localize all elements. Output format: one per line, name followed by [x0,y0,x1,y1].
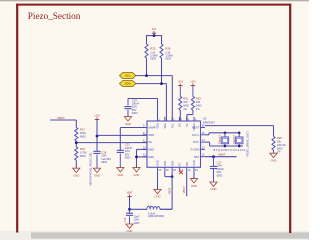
ground R29 [73,168,80,177]
piezo LS2 [232,135,243,144]
power port R33 top [190,82,196,86]
wire divider node [76,141,147,147]
wire piezo1 stubs [224,133,226,146]
wire power to C18 [96,120,98,151]
svg-text:DRV2667: DRV2667 [203,120,216,124]
bottom scrollbar track [0,231,309,240]
svg-text:+3V3: +3V3 [178,82,184,84]
capacitor C15 [123,213,140,225]
junction pin GND [135,156,138,159]
label U3 [203,117,207,121]
junction VDD pins [171,175,174,178]
net label VBAT vertical [168,187,172,194]
ground C17 [210,182,217,191]
junction piezo2 bottom [238,145,241,148]
sheet border right [289,4,291,233]
svg-text:Piezo2: Piezo2 [232,135,236,144]
piezo LS1 [218,135,229,144]
svg-text:Piezo1: Piezo1 [218,135,222,144]
capacitor C17 [210,157,224,182]
wire R28 bottom [273,150,275,153]
wire R25 bottom [146,58,148,76]
wire VDD pins to VBAT [165,172,172,177]
wire R31 top [179,86,181,97]
label DRV2667 [203,120,216,124]
wire piezo2 stubs [238,133,240,146]
svg-text:R26: R26 [165,46,171,50]
no-ERC cross on NC pin [179,171,183,175]
ground pin 20 [154,189,161,198]
wire VBAT left [50,120,76,127]
ground C21 [117,168,124,177]
svg-text:VBAT: VBAT [218,153,225,157]
ground R28 [270,153,277,162]
junction VDD rail [153,34,156,37]
svg-text:SDA: SDA [125,82,131,86]
wire SCL [136,76,173,121]
port SCL [120,73,136,79]
junction C18 node [96,135,99,138]
port SDA [120,81,136,87]
junction L1 C15 [128,208,131,211]
ground C18 [93,168,100,177]
power port VBAT [127,192,133,197]
wire to L1 [130,208,147,210]
svg-text:+3V3: +3V3 [190,82,196,84]
resistor R26 [160,44,173,61]
wire R26 bottom [161,58,163,84]
wire pin VAMP to C21 [120,128,147,151]
wire SDA [136,84,167,121]
ground C24 [124,117,131,126]
wire R25 top [146,35,148,44]
junction SCL-R25 [145,74,148,77]
wire pin GND jog [137,149,148,167]
U3 top pins [156,117,197,131]
wire R29 bottom [75,160,77,168]
wire VBAT right [205,156,237,158]
inductor L1 [147,204,165,218]
wire VDD rail [147,33,162,35]
junction piezo1 top [224,132,227,135]
wire VBAT port down [129,197,131,214]
svg-text:LQM21PN3R3: LQM21PN3R3 [148,215,165,218]
resistor R27 [75,127,86,141]
wire L1 right [160,208,172,210]
wire C18 node to IC [97,134,147,136]
resistor R28 [272,136,286,154]
wire VBAT down [160,172,172,209]
wire VBST pin [186,172,188,197]
wire R33 top [192,86,194,97]
capacitor C18 [93,150,111,168]
junction SDA-R26 [160,82,163,85]
resistor R29 [75,147,87,161]
ground pin 15 [190,179,197,188]
sheet border left [16,4,18,233]
junction piezo2 top [238,132,241,135]
wire R33 bottom jog [187,110,193,121]
svg-text:+3V3: +3V3 [94,116,100,118]
window top edge line [0,0,309,1]
net label piezo drive vertical [246,130,250,156]
U3 left pins [143,124,156,159]
svg-text:3V3: 3V3 [152,29,157,31]
ground C15 [126,224,133,233]
svg-text:L1: L1 [148,204,152,208]
U3 bottom pins [156,160,199,172]
wire OUT- rail [205,142,243,146]
net label VBAT right [218,153,225,157]
junction divider node [75,141,78,144]
junction C17 [212,155,215,158]
net label MICROPHONE vertical [89,152,93,186]
net label VBAT left [57,116,65,120]
op-amp U3 body [147,121,201,167]
bottom scrollbar thumb [31,232,309,238]
ground IC left [133,168,140,177]
svg-text:R25: R25 [150,46,156,50]
resistor R31 [179,96,190,111]
net label VBST vertical [182,186,186,193]
U3 right pins [191,124,206,159]
power port above C18 [94,116,100,120]
wire R31 bottom [179,110,181,121]
wire GND pin 15 [193,172,195,179]
svg-text:SCL: SCL [125,74,131,78]
power port VDD top [152,29,157,33]
junction piezo1 bottom [224,145,227,148]
svg-text:Piezo_Section: Piezo_Section [28,11,81,21]
label piezo part number [214,148,247,152]
wire GND pin 20 [157,172,159,190]
wire REXT [205,126,274,137]
power port R31 top [178,82,184,86]
resistor R25 [145,44,158,61]
wire C24 to IC [128,99,158,122]
wire R26 top [161,35,163,44]
title Piezo_Section [28,11,81,21]
resistor R33 [191,96,202,111]
wire OUT+ rail [205,133,240,135]
capacitor C21 [117,143,133,168]
svg-text:U3: U3 [203,117,207,121]
capacitor C24 [124,98,139,116]
sheet border top [16,4,291,6]
